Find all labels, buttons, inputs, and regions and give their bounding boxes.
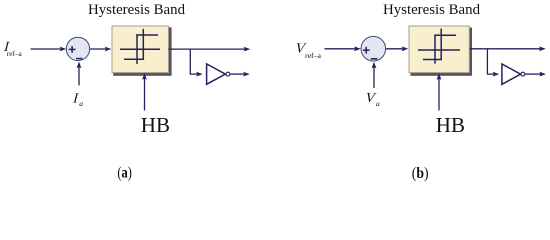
svg-text:HB: HB	[436, 113, 465, 137]
svg-text:HB: HB	[141, 113, 170, 137]
svg-text:(b): (b)	[412, 165, 429, 182]
svg-text:Hysteresis Band: Hysteresis Band	[88, 2, 185, 18]
svg-text:ref–a: ref–a	[305, 51, 322, 60]
svg-text:Hysteresis Band: Hysteresis Band	[383, 2, 480, 18]
svg-text:(a): (a)	[117, 165, 132, 182]
svg-text:a: a	[79, 99, 83, 108]
svg-text:a: a	[376, 99, 380, 108]
svg-text:ref–a: ref–a	[7, 49, 23, 58]
